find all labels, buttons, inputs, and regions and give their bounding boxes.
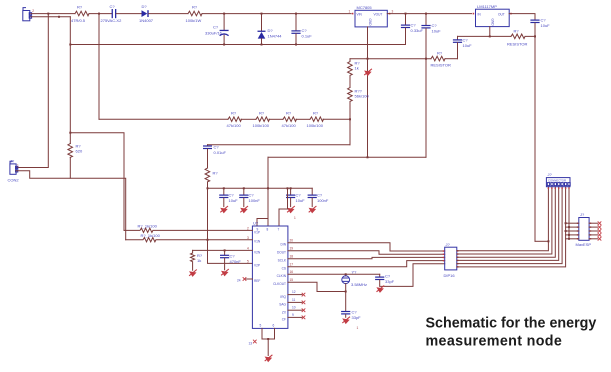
svg-text:C?: C? — [249, 193, 255, 198]
wire U3 GND/ADJ pin — [489, 27, 491, 37]
svg-text:DOUT: DOUT — [277, 251, 286, 255]
junction 5V x=426 — [425, 13, 427, 15]
wire chain seg — [269, 118, 283, 120]
svg-text:15: 15 — [290, 278, 294, 282]
svg-text:V2P: V2P — [254, 263, 260, 267]
capacitor C16 33pF (CLKOUT) — [341, 310, 361, 321]
ground for C12 — [309, 206, 317, 213]
ground for IC — [265, 355, 273, 362]
svg-text:Schematic for the energy: Schematic for the energy — [426, 315, 597, 331]
capacitor C6 10uF — [421, 14, 441, 158]
junction top wire at x=224 — [223, 13, 225, 15]
svg-text:R?: R? — [213, 171, 219, 176]
svg-text:C?: C? — [302, 28, 308, 33]
svg-text:OUT: OUT — [498, 13, 505, 17]
svg-text:Y?: Y? — [352, 270, 358, 275]
svg-text:C?: C? — [296, 193, 302, 198]
svg-text:19: 19 — [290, 247, 294, 251]
diode D1 1N4007 — [139, 4, 154, 23]
svg-text:1: 1 — [349, 10, 351, 14]
svg-text:CON2: CON2 — [8, 178, 20, 183]
wire header pin stub 4 — [566, 234, 579, 236]
junction header stub2 — [568, 226, 570, 228]
junction gnd line x=367.5 — [367, 58, 369, 60]
resistor R14 1k (to ground) — [191, 250, 195, 270]
capacitor C3 330uF/16 electrolytic — [205, 14, 229, 45]
wire DIP right pin5 to connector pin5 — [457, 187, 562, 264]
wire V2 vertical down to IC pin V2P — [208, 182, 253, 264]
junction bus x=268 — [267, 187, 269, 189]
wire header right stub 4 — [589, 234, 597, 236]
junction chain/vertical — [349, 118, 351, 120]
wire DIP pin5 to ground at crystal cap — [381, 264, 445, 287]
svg-text:C?: C? — [411, 23, 417, 28]
wire header pin stub 5 — [566, 238, 579, 240]
svg-text:1: 1 — [17, 164, 19, 168]
no-connect stub IRQ pin 12 — [288, 294, 302, 296]
svg-text:10uF: 10uF — [463, 43, 473, 48]
svg-text:CF: CF — [282, 318, 286, 322]
capacitor C7 10uF (ADJ to gnd) — [453, 36, 472, 58]
no-connect stub SAG pin 11 — [288, 301, 302, 303]
ground for C10 — [240, 206, 248, 213]
junction header stub5 — [568, 238, 570, 240]
svg-text:C?: C? — [432, 23, 438, 28]
junction gnd line x=426 — [425, 58, 427, 60]
wire header pin stub 1 — [566, 222, 579, 224]
svg-text:17: 17 — [290, 263, 294, 267]
svg-text:R?: R? — [286, 111, 292, 116]
svg-text:DIP16: DIP16 — [444, 273, 456, 278]
capacitor C12 100nF — [308, 188, 329, 206]
junction bus x=290.6 — [290, 187, 292, 189]
junction V2 vertical at supply bus — [207, 187, 209, 189]
no-connect stub CF pin 9 — [288, 316, 302, 318]
svg-text:3: 3 — [392, 10, 394, 14]
svg-text:0.01uF: 0.01uF — [214, 150, 227, 155]
capacitor C5 0.33uF — [401, 14, 424, 45]
svg-text:R?: R? — [259, 111, 265, 116]
wire J2 pin2 path — [16, 171, 126, 240]
svg-text:2: 2 — [32, 9, 34, 13]
svg-text:SCLK: SCLK — [278, 259, 287, 263]
svg-text:D?: D? — [142, 4, 148, 9]
wire CS from IC to DIP — [288, 261, 445, 267]
capacitor C8 0.01uF (series in V2 path) — [203, 145, 227, 169]
wire U3 OUT 3.3V to cap and down — [509, 14, 535, 20]
svg-text:100nF: 100nF — [317, 198, 329, 203]
wire IC top pin 2 — [267, 219, 269, 227]
wire header right stub 2 — [589, 226, 597, 228]
wire down to ground — [267, 339, 269, 356]
junction 3.3V feed at connector pin1 — [547, 240, 549, 242]
wire DIP right pin6 to connector pin6 — [457, 187, 566, 267]
svg-text:16: 16 — [290, 270, 294, 274]
junction V2 vertical at V1N wire — [207, 239, 209, 241]
junction 5V x=405.5 — [405, 13, 407, 15]
svg-text:SAG: SAG — [279, 303, 286, 307]
IC U1 ADE7753 energy metering — [252, 221, 288, 329]
wire SCLK from IC to DIP — [288, 257, 445, 258]
svg-text:RESISTOR: RESISTOR — [431, 63, 451, 68]
junction ADJ node — [489, 35, 491, 37]
wire header right stub 1 — [589, 222, 597, 224]
svg-text:REF: REF — [254, 279, 260, 283]
resistor R10 56k/100 (vertical) — [348, 88, 353, 145]
resistor R1 47R — [75, 11, 89, 16]
wire J1 pin2 — [31, 16, 70, 18]
resistor R11 (vertical, V2 filter) — [205, 168, 210, 182]
svg-text:20: 20 — [290, 239, 294, 243]
zener diode D2 1N4744 — [258, 14, 283, 45]
wire live pin1 J1 to R1 — [31, 13, 75, 15]
crystal Y1 3.58MHz — [342, 270, 367, 311]
svg-text:13: 13 — [249, 342, 253, 346]
junction V2N at C13 — [224, 249, 226, 251]
svg-text:DIN: DIN — [281, 243, 287, 247]
svg-text:0.33uF: 0.33uF — [411, 28, 424, 33]
svg-text:V1N: V1N — [254, 240, 261, 244]
svg-text:MC7805: MC7805 — [357, 5, 373, 10]
junction bus x=223.8 — [223, 187, 225, 189]
junction bottom join — [267, 338, 269, 340]
svg-text:1: 1 — [294, 216, 296, 220]
wire connector pin7 vertical — [568, 187, 570, 239]
svg-text:47k/100: 47k/100 — [227, 123, 242, 128]
no-connect stub ZX pin 10 — [288, 309, 302, 311]
junction rail x=70.3 — [69, 44, 71, 46]
svg-text:C?: C? — [230, 254, 236, 259]
wire header right stub 5 — [589, 238, 597, 240]
svg-text:6: 6 — [273, 324, 275, 328]
ground for R14 — [189, 270, 197, 277]
wire DOUT from IC to DIP — [288, 251, 445, 254]
wire IC bottom AGND pin — [261, 328, 263, 339]
svg-text:C?: C? — [229, 193, 235, 198]
svg-text:U?: U? — [253, 221, 259, 226]
svg-text:47k/100: 47k/100 — [282, 123, 297, 128]
resistor R4 47k/100 — [228, 117, 241, 122]
wire V2N — [193, 249, 253, 251]
wire R8 to C7 — [445, 58, 458, 60]
wire D1 to R2 — [149, 13, 188, 15]
connector J1 (mains input, top-left) — [23, 8, 34, 21]
svg-text:CONNECTOR: CONNECTOR — [548, 179, 566, 183]
divider chain wire with 4 resistors — [99, 118, 228, 120]
svg-text:100k/1W: 100k/1W — [186, 18, 202, 23]
no-connect x at IC bottom left pin — [253, 340, 257, 344]
svg-text:470nF: 470nF — [230, 259, 242, 264]
svg-text:8: 8 — [267, 228, 269, 232]
svg-text:RESISTOR: RESISTOR — [507, 42, 527, 47]
resistor R7 100k/100 — [310, 117, 324, 122]
capacitor C10 100nF — [239, 188, 260, 206]
svg-text:C?: C? — [463, 38, 469, 43]
junction crystal bottom — [345, 291, 347, 293]
svg-text:33pF: 33pF — [385, 279, 395, 284]
svg-text:R?_1k/100: R?_1k/100 — [138, 224, 158, 229]
ground for C11 — [287, 206, 295, 213]
svg-text:R?: R? — [437, 51, 443, 56]
svg-text:MaxESP: MaxESP — [576, 242, 592, 247]
svg-text:11: 11 — [292, 298, 296, 302]
svg-text:C?: C? — [214, 145, 220, 150]
wire IC top pin jog — [257, 218, 268, 220]
junction header stub1 — [565, 222, 567, 224]
svg-text:1: 1 — [357, 326, 359, 330]
svg-text:V2N: V2N — [254, 250, 261, 254]
svg-text:C?: C? — [352, 310, 358, 315]
resistor R6 47k/100 — [283, 117, 297, 122]
no-connect stub pin 6 REF — [246, 278, 252, 280]
svg-text:12: 12 — [292, 290, 296, 294]
junction rail x=224 — [223, 44, 225, 46]
svg-text:C?: C? — [213, 25, 219, 30]
wire CX to diode D1 — [116, 13, 141, 15]
wire header pin stub 2 — [566, 226, 579, 228]
svg-text:10uF: 10uF — [541, 23, 551, 28]
junction rail x=296 — [295, 44, 297, 46]
wire CLKOUT jog to crystal bottom — [288, 282, 346, 291]
ground distribution wire y=58.7 — [350, 58, 431, 60]
svg-text:3: 3 — [247, 236, 249, 240]
wire vertical x=70.3 upper (pin2 down to R620) — [69, 17, 71, 144]
wire chain seg — [241, 118, 256, 120]
wire chain seg — [296, 118, 310, 120]
ground for C15 — [376, 286, 384, 293]
svg-text:275VAC-X2: 275VAC-X2 — [101, 18, 123, 23]
connector J4 MaxESP header — [576, 212, 592, 247]
svg-text:47R/0.5: 47R/0.5 — [71, 18, 86, 23]
svg-text:1N4007: 1N4007 — [139, 18, 154, 23]
svg-text:C?: C? — [317, 193, 323, 198]
wire bus drop x=268 — [267, 157, 269, 218]
svg-text:CLKIN: CLKIN — [277, 274, 287, 278]
wire V1N with resistor R13 1k/100 — [126, 238, 253, 242]
wire vertical live x=99 down to divider chain — [98, 14, 100, 120]
svg-text:24: 24 — [237, 279, 241, 283]
wire DIN from IC to DIP — [288, 243, 445, 251]
svg-text:1k: 1k — [355, 66, 359, 71]
svg-text:330uF/16: 330uF/16 — [205, 31, 223, 36]
resistor R3 620 (vertical) — [68, 144, 73, 158]
svg-text:10: 10 — [292, 306, 296, 310]
junction crystal top — [345, 273, 347, 275]
junction top wire at x=296 — [295, 13, 297, 15]
svg-text:5: 5 — [247, 260, 249, 264]
svg-text:C?: C? — [110, 4, 116, 9]
wire DIP right pin1 to connector pin1 — [457, 187, 549, 251]
capacitor C4 0.1uF — [291, 14, 312, 45]
wire IC top pin 3 path from bus — [279, 188, 288, 226]
svg-text:33pF: 33pF — [352, 315, 362, 320]
wire divider tap to series cap C8 — [208, 144, 351, 146]
wire R1 to capacitor CX — [89, 13, 112, 15]
resistor R5 100k/100 — [256, 117, 270, 122]
junction pin2 wire — [58, 16, 60, 18]
svg-text:GND: GND — [368, 19, 372, 27]
svg-text:9: 9 — [257, 228, 259, 232]
wire V1P with resistor R12 1k/100 — [124, 228, 252, 232]
capacitor C15 33pF (CLKIN) — [375, 274, 395, 287]
svg-text:CS: CS — [282, 267, 286, 271]
junction top wire at x=99 — [98, 13, 100, 15]
svg-text:10uF: 10uF — [432, 29, 442, 34]
svg-text:R?_1k/100: R?_1k/100 — [141, 233, 161, 238]
junction header stub3 — [565, 230, 567, 232]
junction 3.3V at R15 — [534, 35, 536, 37]
wire chain end to vertical x=350 — [323, 118, 350, 120]
capacitor C14 10uF (on 3.3V) — [530, 18, 550, 242]
resistor R9 1k (vertical, hangs from gnd line) — [348, 59, 353, 88]
connector J3 programming header — [546, 172, 570, 189]
neutral rail wire y=44.5 — [70, 44, 405, 46]
svg-text:VIN: VIN — [357, 13, 363, 17]
wire U2 out 5V rail to U3 — [387, 13, 471, 15]
wire branch V1P from x=70.3 to vertical x=124 — [70, 133, 124, 231]
capacitor C9 10uF (decoupling) — [219, 188, 238, 206]
wire header right stub 3 — [589, 230, 597, 232]
resistor R8 RESISTOR (in gnd line) — [431, 56, 445, 61]
svg-text:CLKOUT: CLKOUT — [273, 282, 286, 286]
junction top wire at x=261.5 — [261, 13, 263, 15]
wire bottom join — [262, 338, 275, 340]
wire vertical from live down to J2 pin1 — [16, 14, 48, 168]
svg-text:IRQ: IRQ — [280, 295, 286, 299]
svg-text:3.58MHz: 3.58MHz — [351, 282, 367, 287]
svg-text:10uF: 10uF — [296, 198, 306, 203]
wire ADJ node left to C7 — [458, 35, 512, 37]
svg-text:9: 9 — [292, 313, 294, 317]
IC U4 DIP opto/interface — [443, 242, 459, 278]
wire R620 to bottom corner — [69, 157, 71, 178]
wire IC top pin 1 — [256, 219, 258, 227]
capacitor C2 275VAC X2 (series) — [101, 4, 123, 23]
wire header pin stub 3 — [566, 230, 579, 232]
svg-text:1N4744: 1N4744 — [268, 34, 283, 39]
wire DIP right pin4 to connector pin4 — [457, 187, 559, 261]
svg-text:R?: R? — [313, 111, 319, 116]
svg-text:5: 5 — [260, 324, 262, 328]
capacitor C13 470nF — [220, 250, 241, 269]
wire R2 to regulator U2 VIN — [202, 13, 351, 15]
svg-text:620: 620 — [76, 149, 83, 154]
resistor R15 RESISTOR (ADJ to OUT) — [511, 34, 535, 39]
supply bus wire y=188.3 — [208, 187, 313, 189]
svg-text:R?: R? — [192, 5, 198, 10]
svg-text:VOUT: VOUT — [374, 13, 383, 17]
svg-text:100nF: 100nF — [249, 198, 261, 203]
ground for C16 — [342, 317, 350, 324]
svg-text:18: 18 — [290, 255, 294, 259]
svg-text:7: 7 — [278, 228, 280, 232]
junction header stub4 — [568, 234, 570, 236]
ground for U2 — [364, 69, 372, 76]
svg-text:10uF: 10uF — [229, 198, 239, 203]
junction bus x=287.5 — [287, 187, 289, 189]
svg-text:0.1uF: 0.1uF — [302, 34, 313, 39]
wire CLKIN to crystal and C15 — [288, 273, 380, 275]
junction top wire at x=48.3 — [47, 13, 49, 15]
svg-text:measurement node: measurement node — [426, 333, 563, 349]
junction at branch — [69, 132, 71, 134]
wire 3.3V to connector pin1 — [535, 240, 548, 242]
svg-text:R?: R? — [77, 5, 83, 10]
ground for C13 — [221, 269, 229, 276]
svg-text:D?: D? — [268, 28, 274, 33]
junction supply line x=367.5 — [367, 156, 369, 158]
capacitor C11 10uF — [286, 188, 305, 206]
op-amp U2 regulator 7805 — [349, 5, 394, 27]
svg-text:C?: C? — [541, 18, 547, 23]
svg-text:100k/100: 100k/100 — [307, 123, 324, 128]
wire DIP right pin2 to connector pin2 — [457, 187, 552, 254]
svg-text:R?: R? — [231, 111, 237, 116]
op-amp U3 regulator LM1117 — [473, 4, 512, 26]
svg-text:100k/100: 100k/100 — [253, 123, 270, 128]
svg-text:C?: C? — [385, 274, 391, 279]
svg-text:LM1117MP: LM1117MP — [477, 4, 497, 9]
svg-text:56k/100: 56k/100 — [355, 94, 370, 99]
junction bus x=243.8 — [243, 187, 245, 189]
wire DIP right pin3 to connector pin3 — [457, 187, 556, 258]
wire supply line y=157.3 to IC verticals — [268, 156, 426, 158]
svg-text:R?: R? — [514, 29, 520, 34]
wire IC bottom DGND pin — [274, 328, 276, 339]
junction rail x=261.5 — [261, 44, 263, 46]
svg-text:1k: 1k — [197, 258, 201, 263]
wire U2 GND pin vertical down to supply line — [367, 27, 369, 157]
connector J2 (CT input, left) — [8, 159, 20, 183]
svg-text:GND: GND — [491, 19, 495, 27]
ground for C9 — [220, 206, 228, 213]
resistor R2 100k/1W — [188, 11, 202, 16]
